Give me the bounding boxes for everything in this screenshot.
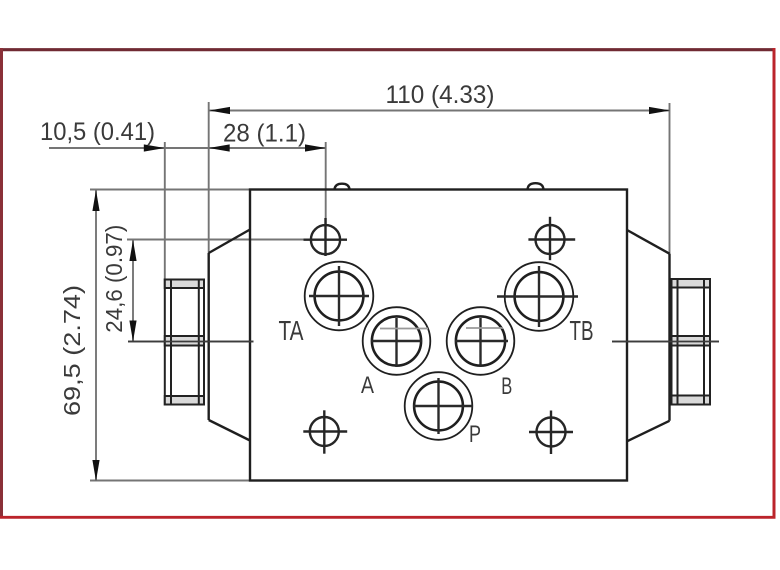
svg-text:69,5 (2.74): 69,5 (2.74)	[59, 285, 85, 416]
svg-text:P: P	[469, 421, 481, 448]
svg-text:10,5 (0.41): 10,5 (0.41)	[40, 118, 155, 146]
svg-text:B: B	[501, 373, 512, 400]
svg-text:TA: TA	[279, 315, 304, 346]
svg-text:A: A	[361, 372, 374, 399]
svg-text:TB: TB	[570, 315, 594, 346]
svg-text:24,6 (0.97): 24,6 (0.97)	[101, 225, 127, 333]
svg-text:110 (4.33): 110 (4.33)	[386, 81, 495, 109]
svg-text:28 (1.1): 28 (1.1)	[223, 120, 306, 148]
